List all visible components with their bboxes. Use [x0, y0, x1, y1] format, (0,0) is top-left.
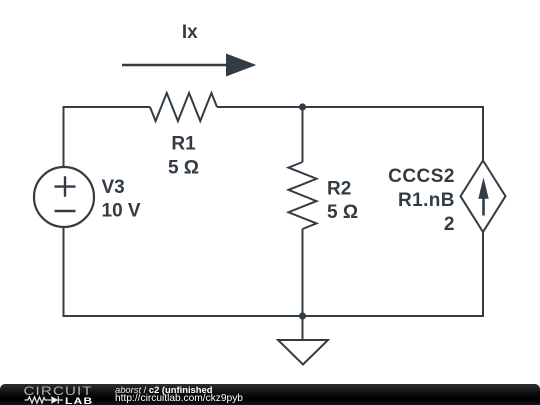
- svg-text:Ix: Ix: [182, 22, 198, 43]
- svg-text:5 Ω: 5 Ω: [327, 202, 358, 223]
- svg-text:R2: R2: [327, 179, 351, 200]
- svg-text:CCCS2: CCCS2: [388, 166, 455, 187]
- svg-text:R1: R1: [171, 134, 196, 155]
- svg-text:2: 2: [444, 214, 455, 235]
- svg-text:5 Ω: 5 Ω: [168, 158, 199, 179]
- svg-text:R1.nB: R1.nB: [398, 190, 455, 211]
- svg-text:10 V: 10 V: [102, 201, 141, 222]
- svg-text:LAB: LAB: [65, 396, 93, 405]
- svg-text:V3: V3: [102, 177, 125, 198]
